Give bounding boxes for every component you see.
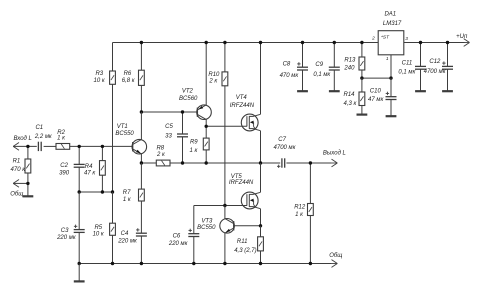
- svg-text:10 к: 10 к: [93, 231, 105, 237]
- node C4 bottom on rail: [140, 262, 143, 265]
- node R6 top on rail: [140, 41, 143, 44]
- label Общ input: [10, 191, 23, 197]
- svg-text:VT2: VT2: [182, 89, 194, 95]
- node C2 bottom: [78, 190, 81, 193]
- wire R1 to common arrow: [13, 182, 28, 184]
- svg-text:240: 240: [343, 65, 355, 71]
- node R9 bottom: [205, 161, 208, 164]
- svg-text:3: 3: [405, 36, 408, 42]
- svg-text:IRFZ44N: IRFZ44N: [230, 103, 255, 109]
- ground below R1: [23, 183, 34, 196]
- node R4 top: [101, 145, 104, 148]
- terminal arrow common input: [13, 180, 19, 188]
- node C12 top on rail: [446, 41, 449, 44]
- transistor VT3: [220, 206, 235, 264]
- capacitor C1: [38, 142, 41, 151]
- label VT3: [197, 219, 216, 232]
- svg-text:390: 390: [59, 170, 70, 176]
- resistor R14: [357, 78, 368, 115]
- svg-text:BC550: BC550: [115, 131, 134, 137]
- node R5 bottom on rail: [111, 262, 114, 265]
- svg-text:R12: R12: [294, 205, 306, 211]
- wire top supply rail: [113, 42, 378, 44]
- svg-text:R5: R5: [94, 225, 102, 231]
- node C6 bottom on rail: [192, 262, 195, 265]
- node C3 bottom on rail: [78, 262, 81, 265]
- svg-text:0,1 мк: 0,1 мк: [398, 70, 416, 76]
- node R13/R14 junction: [360, 76, 363, 79]
- label R14: [343, 92, 357, 107]
- svg-text:C5: C5: [165, 124, 173, 130]
- svg-text:R1: R1: [13, 159, 21, 165]
- label VT4: [230, 95, 255, 109]
- wire input line: [13, 145, 133, 147]
- svg-text:C6: C6: [173, 233, 181, 239]
- svg-text:4700 мк: 4700 мк: [424, 69, 447, 75]
- svg-text:4,3 к: 4,3 к: [343, 101, 357, 107]
- node VT5 source junction: [259, 224, 262, 227]
- wire VT5 gate node: [194, 205, 247, 207]
- svg-text:2,2 мк: 2,2 мк: [34, 134, 53, 140]
- svg-text:1 к: 1 к: [189, 148, 198, 154]
- node VT2 emitter on rail: [205, 41, 208, 44]
- svg-text:VT4: VT4: [236, 95, 248, 101]
- label Выход L: [323, 151, 346, 157]
- capacitor C6: [188, 206, 199, 264]
- svg-text:4700 мк: 4700 мк: [274, 145, 297, 151]
- label C4: [117, 231, 138, 244]
- label R9: [189, 139, 198, 154]
- wire C2/R4 bottoms to R5: [79, 191, 112, 193]
- node input/R1: [26, 145, 29, 148]
- wire bottom common rail: [79, 263, 331, 265]
- wire VT4 gate: [206, 125, 247, 127]
- svg-text:C9: C9: [315, 62, 323, 68]
- capacitor C8: [297, 43, 308, 92]
- resistor R8: [156, 160, 170, 166]
- node R3/R5 junction: [111, 190, 114, 193]
- transistor VT5: [241, 163, 260, 226]
- resistor R3: [110, 43, 116, 193]
- node VT2 collector junction: [205, 125, 208, 128]
- label C6: [168, 233, 189, 247]
- node C5 top: [181, 110, 184, 113]
- pin 3 label: [405, 36, 408, 42]
- node output junction: [259, 161, 262, 164]
- svg-text:C2: C2: [60, 163, 68, 169]
- resistor R7: [139, 163, 145, 233]
- label C8: [280, 61, 300, 79]
- capacitor C7: [277, 158, 285, 168]
- svg-text:1 к: 1 к: [123, 197, 132, 203]
- svg-text:4,3 (2,7): 4,3 (2,7): [234, 248, 256, 254]
- label C1: [34, 125, 53, 140]
- transistor VT4: [241, 43, 260, 164]
- label R6: [122, 71, 136, 84]
- svg-text:R10: R10: [208, 72, 220, 78]
- node ADJ/C10 junction: [389, 76, 392, 79]
- svg-text:33: 33: [165, 134, 172, 140]
- svg-text:R3: R3: [95, 71, 103, 77]
- svg-text:C10: C10: [370, 89, 382, 95]
- svg-text:Общ: Общ: [10, 191, 23, 197]
- node C9 top on rail: [333, 41, 336, 44]
- resistor R13: [359, 43, 365, 79]
- svg-text:Общ: Общ: [329, 253, 342, 259]
- resistor R2: [56, 144, 70, 150]
- svg-text:C8: C8: [283, 61, 291, 67]
- terminal arrow common bottom: [331, 260, 337, 268]
- label Общ bottom: [329, 253, 342, 259]
- capacitor C2: [74, 146, 85, 192]
- svg-text:220 мк: 220 мк: [56, 235, 77, 241]
- svg-text:470 к: 470 к: [11, 167, 27, 173]
- resistor R1: [25, 146, 31, 183]
- svg-text:C4: C4: [121, 231, 129, 237]
- svg-text:+Uп: +Uп: [456, 34, 468, 40]
- svg-text:C12: C12: [429, 59, 441, 65]
- svg-text:VT3: VT3: [201, 219, 213, 225]
- node VT1 collector junction: [140, 110, 143, 113]
- label R4: [84, 164, 96, 177]
- svg-text:47 к: 47 к: [84, 171, 96, 177]
- capacitor C9: [329, 43, 340, 92]
- svg-text:Выход L: Выход L: [323, 151, 346, 157]
- svg-text:BC550: BC550: [197, 225, 216, 231]
- regulator DA1 LM317: [378, 31, 404, 78]
- terminal arrow +Un: [464, 39, 470, 47]
- label DA1: [383, 12, 402, 28]
- wire VT3 base to R11: [234, 225, 261, 227]
- capacitor C5: [177, 112, 188, 163]
- svg-text:C11: C11: [402, 61, 413, 67]
- label R1: [11, 159, 27, 173]
- capacitor C4: [136, 228, 147, 263]
- svg-text:10 к: 10 к: [94, 78, 106, 84]
- svg-text:R9: R9: [190, 139, 198, 145]
- label VT2: [179, 89, 198, 103]
- ground main: [74, 264, 85, 282]
- node VT4 drain on rail: [259, 41, 262, 44]
- node R11 bottom on rail: [259, 262, 262, 265]
- node R13 top on rail: [360, 41, 363, 44]
- transistor VT2: [197, 43, 212, 127]
- svg-text:C7: C7: [278, 137, 286, 143]
- svg-text:0,1 мк: 0,1 мк: [313, 72, 331, 78]
- svg-text:R4: R4: [85, 164, 93, 170]
- label +Un: [456, 34, 468, 40]
- svg-text:C1: C1: [35, 125, 43, 131]
- capacitor C11: [415, 43, 426, 92]
- label Вход L: [13, 136, 31, 142]
- label C3: [56, 228, 77, 241]
- node C11 top on rail: [419, 41, 422, 44]
- label C10: [368, 89, 384, 103]
- capacitor C12: [442, 43, 453, 92]
- label R10: [208, 72, 220, 85]
- svg-text:R11: R11: [237, 239, 248, 245]
- label C9: [313, 62, 331, 78]
- svg-text:2 к: 2 к: [156, 152, 166, 158]
- resistor R11: [258, 226, 264, 264]
- capacitor C10: [386, 78, 397, 116]
- svg-text:220 мк: 220 мк: [117, 239, 138, 245]
- node VT3 emitter on rail: [223, 262, 226, 265]
- svg-text:1 к: 1 к: [57, 135, 66, 141]
- svg-text:R7: R7: [123, 190, 131, 196]
- capacitor C3: [74, 192, 85, 264]
- svg-text:220 мк: 220 мк: [168, 241, 189, 247]
- resistor R6: [139, 43, 145, 113]
- svg-text:DA1: DA1: [384, 12, 396, 18]
- node R12 top: [309, 161, 312, 164]
- svg-text:LM317: LM317: [383, 21, 402, 27]
- svg-text:VT1: VT1: [117, 124, 128, 130]
- svg-text:R14: R14: [343, 92, 355, 98]
- svg-text:R8: R8: [156, 145, 164, 151]
- wire VT2 base to VT1 collector node: [141, 111, 197, 113]
- label R3: [94, 71, 106, 84]
- wire output/feedback line: [141, 162, 331, 164]
- label VT5: [229, 174, 254, 186]
- label C7: [274, 137, 297, 151]
- resistor R4: [100, 146, 106, 192]
- terminal arrow input: [13, 143, 19, 151]
- resistor R12: [308, 163, 314, 264]
- label C5: [165, 124, 173, 139]
- label R12: [294, 205, 306, 219]
- label VT1: [115, 124, 134, 137]
- node VT5 gate junction: [223, 204, 226, 207]
- node C5 bottom: [181, 161, 184, 164]
- svg-text:1 к: 1 к: [295, 212, 304, 218]
- svg-text:IRFZ44N: IRFZ44N: [229, 180, 254, 186]
- svg-text:C3: C3: [61, 228, 69, 234]
- terminal arrow output: [331, 159, 337, 167]
- node R10 top on rail: [223, 41, 226, 44]
- svg-text:R6: R6: [124, 71, 132, 77]
- pin 2 label: [371, 36, 375, 42]
- svg-text:*ST: *ST: [381, 35, 390, 41]
- svg-text:1: 1: [386, 56, 389, 62]
- label C12: [424, 59, 447, 75]
- resistor R9: [203, 126, 209, 163]
- svg-text:R13: R13: [344, 57, 356, 63]
- resistor R5: [110, 192, 116, 264]
- label R7: [123, 190, 132, 203]
- node VT1 emitter junction: [140, 161, 143, 164]
- label R11: [234, 239, 256, 254]
- resistor R10: [222, 43, 228, 206]
- transistor VT1: [132, 112, 147, 163]
- pin 1 label: [386, 56, 389, 62]
- node R12 bottom on rail: [309, 262, 312, 265]
- label R5: [93, 225, 105, 238]
- node R4 bottom: [101, 190, 104, 193]
- label R8: [156, 145, 166, 158]
- label R13: [343, 57, 356, 71]
- svg-text:BC560: BC560: [179, 96, 198, 102]
- wire LM317 output rail: [404, 42, 465, 44]
- svg-text:2 к: 2 к: [208, 79, 218, 85]
- svg-text:2: 2: [371, 36, 375, 42]
- svg-text:47 мк: 47 мк: [368, 97, 384, 103]
- label C2: [59, 163, 70, 177]
- svg-text:470 мк: 470 мк: [280, 73, 300, 79]
- svg-text:6,8 к: 6,8 к: [122, 78, 136, 84]
- node R1 bottom: [26, 182, 29, 185]
- node C8 top on rail: [301, 41, 304, 44]
- node C2 top: [78, 145, 81, 148]
- label C11: [398, 61, 416, 76]
- wire R13/R14 to ADJ: [362, 77, 391, 79]
- svg-text:Вход L: Вход L: [13, 136, 31, 142]
- label R2: [57, 130, 66, 141]
